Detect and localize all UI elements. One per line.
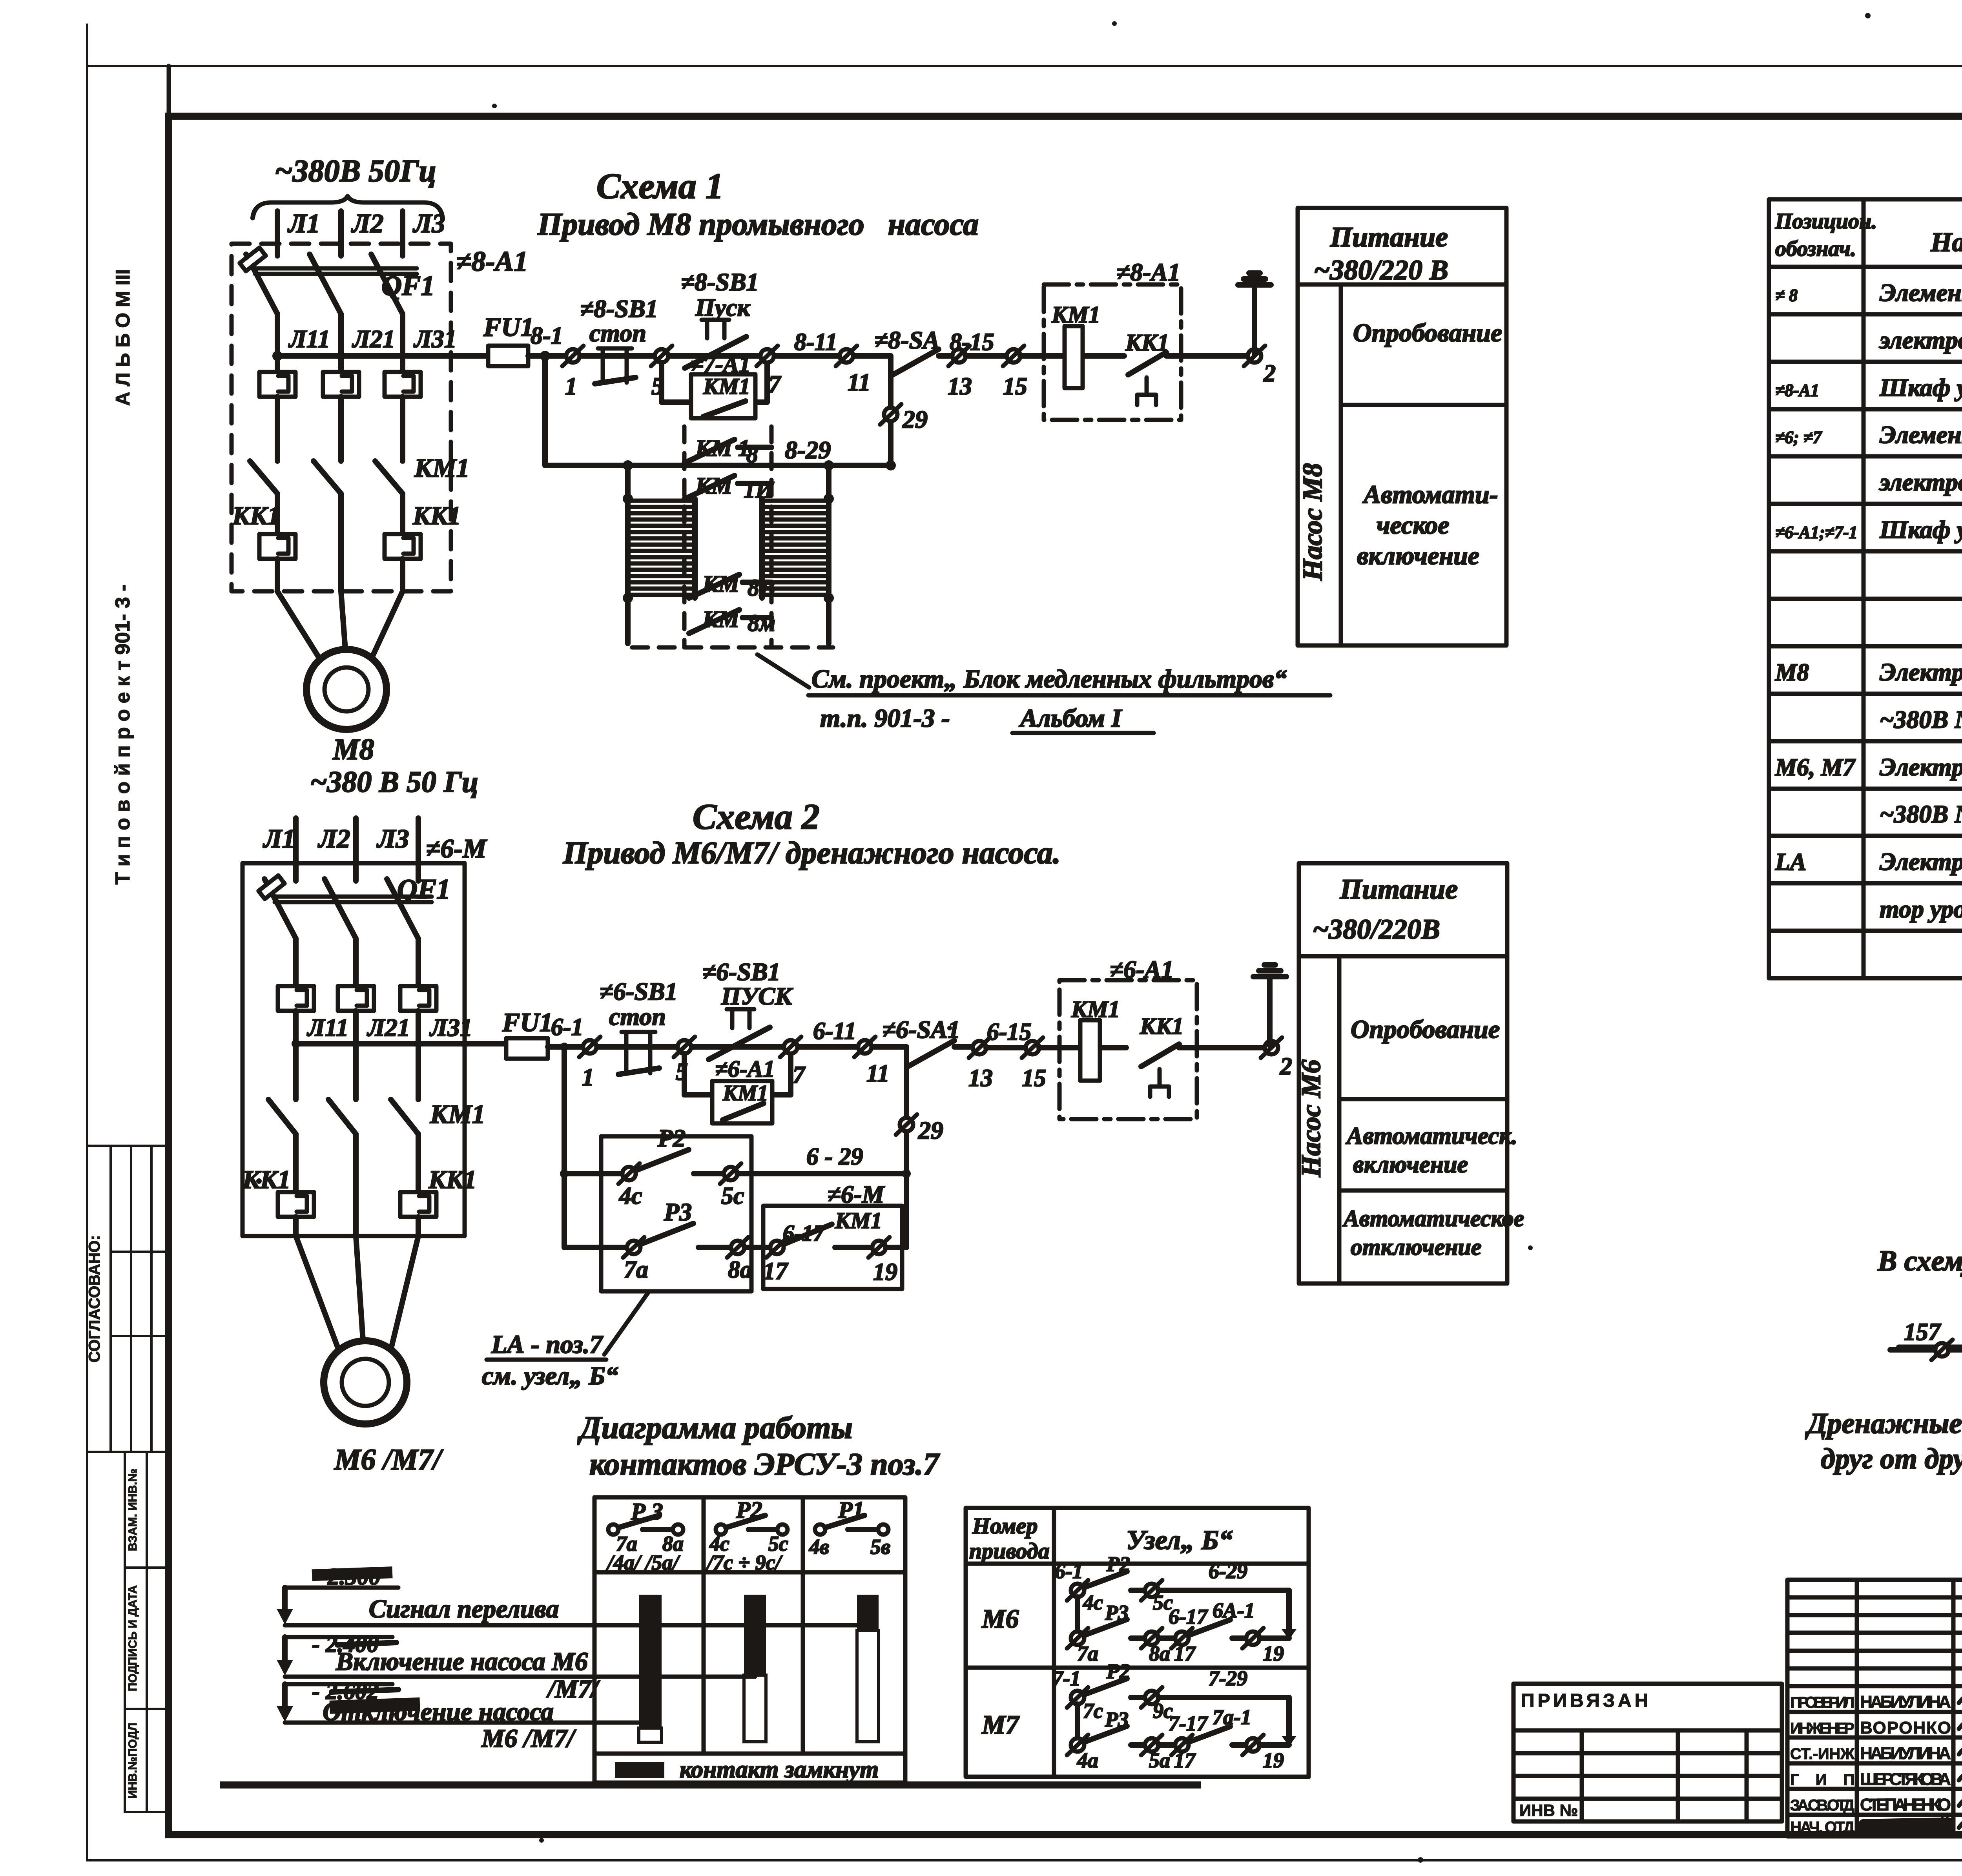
svg-text:Пуск: Пуск	[695, 294, 751, 321]
svg-text:ЗА.СВ.ОТД: ЗА.СВ.ОТД	[1790, 1797, 1854, 1814]
svg-text:≠6; ≠7: ≠6; ≠7	[1775, 428, 1822, 447]
svg-text:Альбом I: Альбом I	[1019, 704, 1122, 733]
svg-text:~380В N=30кВт n=1450 об/мин: ~380В N=30кВт n=1450 об/мин.	[1880, 706, 1962, 733]
svg-text:Автомати-: Автомати-	[1362, 480, 1498, 509]
svg-text:~380В 50Гц: ~380В 50Гц	[275, 154, 436, 188]
heater element phase 2	[323, 372, 359, 397]
svg-text:Включение насоса М6: Включение насоса М6	[336, 1647, 588, 1676]
ground symbol schema 1	[1238, 273, 1271, 354]
svg-text:5в: 5в	[870, 1535, 890, 1559]
header contact P3	[606, 1499, 684, 1574]
svg-text:ПРОВЕРИЛ: ПРОВЕРИЛ	[1790, 1694, 1854, 1711]
wires to box bottom	[293, 1217, 299, 1236]
svg-text:М6: М6	[981, 1604, 1019, 1634]
svg-text:15: 15	[1003, 373, 1027, 400]
wire: phase drops to bus	[275, 314, 280, 372]
svg-text:17: 17	[1174, 1748, 1196, 1772]
svg-text:Л2: Л2	[351, 208, 384, 238]
svg-text:4с: 4с	[619, 1183, 642, 1209]
svg-text:Опробование: Опробование	[1351, 1015, 1500, 1044]
svg-text:LА: LА	[1775, 849, 1806, 875]
svg-text:Элементы управления: Элементы управления	[1880, 279, 1962, 306]
svg-text:29: 29	[902, 405, 928, 433]
svg-text:контактов ЭРСУ-3 поз.7: контактов ЭРСУ-3 поз.7	[589, 1447, 940, 1482]
contact circle 2	[1244, 346, 1265, 366]
level mark -2.400	[277, 1631, 396, 1675]
svg-text:2: 2	[1263, 360, 1276, 387]
separator line under diagram area	[220, 1781, 1201, 1788]
contact circle 11 schema 2	[854, 1037, 875, 1057]
svg-text:6-17: 6-17	[1169, 1605, 1208, 1628]
svg-text:СТ.-ИНЖ: СТ.-ИНЖ	[1790, 1745, 1855, 1763]
svg-text:5а: 5а	[1149, 1748, 1170, 1772]
svg-text:≠6-М: ≠6-М	[426, 833, 487, 863]
svg-text:НАБИУЛИНА: НАБИУЛИНА	[1860, 1692, 1951, 1712]
svg-text:7а: 7а	[1077, 1642, 1098, 1665]
wire to contact P2	[564, 1171, 623, 1176]
svg-text:ИНВ.№ПОДЛ: ИНВ.№ПОДЛ	[126, 1723, 139, 1799]
svg-text:обознач.: обознач.	[1775, 237, 1856, 261]
svg-text:1: 1	[582, 1064, 594, 1091]
wires converging to motor M8	[277, 591, 321, 661]
wire: KK1 to box bottom	[275, 559, 280, 591]
svg-text:Л21: Л21	[367, 1014, 410, 1041]
svg-text:17: 17	[763, 1258, 789, 1285]
svg-text:т.п. 901-3 -: т.п. 901-3 -	[820, 704, 950, 733]
contact P1 to signalling	[1890, 1316, 1962, 1370]
svg-text:Питание: Питание	[1330, 221, 1448, 253]
wire	[986, 1045, 1032, 1050]
svg-text:друг от друга.: друг от друга.	[1821, 1443, 1962, 1475]
svg-text:Привод М8 промывного насоса: Привод М8 промывного насоса	[537, 207, 979, 242]
blot over last name	[1858, 1818, 1955, 1835]
svg-text:ПОДПИСЬ И ДАТА: ПОДПИСЬ И ДАТА	[126, 1585, 139, 1691]
motor M6/M7	[324, 1341, 407, 1424]
contact circle 7 schema 2	[780, 1037, 801, 1057]
svg-text:7с: 7с	[1083, 1699, 1103, 1723]
parts list table	[1769, 199, 1962, 978]
auxiliary contact KM1 box #7-A1	[691, 351, 755, 418]
svg-text:Л11: Л11	[306, 1014, 348, 1041]
motor M8	[306, 649, 387, 729]
svg-text:М7: М7	[981, 1710, 1020, 1739]
svg-text:/4а/ /5а/: /4а/ /5а/	[606, 1551, 681, 1574]
svg-text:Электронный регулятор-сигнали: Электронный регулятор-сигнализа-	[1880, 848, 1962, 875]
svg-text:ИНЖЕНЕР: ИНЖЕНЕР	[1790, 1720, 1854, 1737]
level mark -2.602	[277, 1678, 398, 1722]
svg-text:М8: М8	[1775, 659, 1809, 686]
svg-text:Р2: Р2	[657, 1124, 686, 1152]
node L11 schema 2	[292, 1039, 300, 1048]
svg-text:Сигнал перелива: Сигнал перелива	[369, 1595, 559, 1623]
svg-text:FU1: FU1	[483, 312, 534, 342]
svg-text:6-11: 6-11	[813, 1018, 856, 1045]
interlock box #6-M	[763, 1180, 902, 1289]
wires QF1 to heaters	[293, 939, 299, 986]
svg-text:привода: привода	[969, 1538, 1050, 1564]
svg-text:/7с ÷ 9с/: /7с ÷ 9с/	[706, 1551, 783, 1574]
svg-text:2: 2	[1280, 1053, 1292, 1080]
svg-text:≠8-А1: ≠8-А1	[1116, 258, 1180, 286]
contact circle 7	[757, 346, 778, 366]
wire to terminal 2 schema 2	[1179, 1045, 1265, 1050]
wire: node 8-1 drop to lower bus	[542, 356, 548, 465]
auxiliary contact KM1 box #6-A1	[712, 1056, 775, 1123]
feed table box schema 1	[1298, 208, 1506, 645]
svg-text:6-29: 6-29	[1209, 1559, 1247, 1583]
heater element phase 3	[385, 372, 421, 397]
svg-text:29: 29	[918, 1116, 943, 1144]
phase line L3 schema 2	[416, 818, 421, 881]
svg-text:4в: 4в	[809, 1535, 829, 1559]
svg-text:ПУСК: ПУСК	[721, 982, 793, 1010]
svg-text:Т и п о в о й п р о е к т: Т и п о в о й п р о е к т 901- 3 -	[111, 585, 134, 885]
svg-text:стоп: стоп	[589, 319, 646, 347]
wire to terminal 2	[1166, 353, 1248, 359]
cabinet #6-M enclosure	[243, 863, 465, 1236]
wire: KM1 contacts to KK1 heaters	[275, 494, 280, 534]
svg-text:Наименование: Наименование	[1930, 227, 1962, 257]
svg-text:Узел„ Б“: Узел„ Б“	[1126, 1525, 1233, 1555]
wire: bus down to P3 row	[904, 1174, 909, 1247]
svg-text:8а: 8а	[1149, 1642, 1170, 1665]
LA contacts box	[601, 1136, 751, 1291]
dashed bottom of winding block	[632, 645, 833, 650]
diagram frame	[594, 1497, 905, 1783]
contact circle 15	[1003, 346, 1024, 366]
header contact P1	[809, 1497, 890, 1559]
svg-text:М6 /М7/: М6 /М7/	[481, 1724, 576, 1753]
svg-text:≠6-SB1: ≠6-SB1	[600, 977, 678, 1005]
left margin stamp strip (inv/podpis/vzam)	[125, 1452, 169, 1812]
svg-text:НАБИУЛИНА: НАБИУЛИНА	[1860, 1744, 1951, 1763]
phase line L1 schema 2	[293, 818, 299, 881]
svg-text:8а: 8а	[728, 1256, 752, 1283]
svg-text:Шкаф управления ШУ5104-03В2Е: Шкаф управления ШУ5104-03В2Е	[1879, 516, 1962, 543]
svg-text:15: 15	[1022, 1065, 1046, 1092]
svg-text:КМ1: КМ1	[1051, 302, 1100, 328]
svg-text:Автоматическое: Автоматическое	[1342, 1205, 1524, 1231]
svg-text:включение: включение	[1357, 541, 1479, 570]
svg-text:1: 1	[565, 373, 577, 400]
contactor KM1 main contacts	[250, 453, 470, 494]
svg-text:11: 11	[848, 369, 871, 396]
cabinet #8-A1 dash-dot enclosure	[1044, 284, 1181, 420]
switch contact #8-SA1	[874, 326, 952, 376]
svg-text:Питание: Питание	[1340, 873, 1458, 905]
switch contact #6-SA1	[882, 1015, 973, 1067]
circuit breaker QF1	[240, 248, 435, 314]
svg-text:7а: 7а	[624, 1256, 648, 1283]
contact circle 29 schema 2	[896, 1114, 917, 1135]
start button SB1 schema 1	[681, 268, 759, 368]
level line pump on	[285, 1675, 755, 1679]
wire	[528, 353, 891, 359]
wire: heater to KM1 contacts	[275, 397, 280, 461]
svg-text:6А-1: 6А-1	[1213, 1599, 1255, 1622]
svg-text:19: 19	[1263, 1748, 1284, 1772]
note LA pos 7	[482, 1293, 648, 1390]
svg-text:6 - 29: 6 - 29	[806, 1143, 863, 1170]
svg-text:≠8-А1: ≠8-А1	[1775, 381, 1819, 400]
svg-text:Л1: Л1	[263, 824, 295, 853]
thermal contact KK1 schema 1	[1125, 330, 1169, 405]
svg-text:см. узел„ Б“: см. узел„ Б“	[482, 1362, 618, 1390]
svg-text:≠6-А1: ≠6-А1	[715, 1056, 775, 1082]
svg-text:Л2: Л2	[317, 824, 350, 853]
svg-text:≠6-SB1: ≠6-SB1	[702, 958, 780, 986]
contact circle 13	[948, 346, 970, 366]
wire 19 up to bus	[886, 1245, 906, 1250]
contact circle 13 schema 2	[969, 1037, 990, 1058]
contactor KM1 main contacts schema 2	[268, 1099, 485, 1134]
svg-text:LА - поз.7: LА - поз.7	[491, 1330, 604, 1359]
wire into cabinet	[1039, 1045, 1126, 1050]
svg-text:Электродвигатель насоса АОП2-2: Электродвигатель насоса АОП2-22-4	[1880, 753, 1962, 781]
contact circle 1 schema 2	[579, 1037, 600, 1057]
svg-text:4с: 4с	[1083, 1591, 1103, 1614]
svg-text:≠6-А1: ≠6-А1	[1110, 955, 1174, 983]
svg-text:7-29: 7-29	[1209, 1666, 1247, 1690]
svg-text:~380/220В: ~380/220В	[1313, 913, 1440, 945]
wire: node 6-1 drop	[562, 1047, 567, 1247]
svg-text:19: 19	[1263, 1642, 1284, 1665]
svg-text:11: 11	[866, 1060, 890, 1087]
node 29 drop schema 2	[904, 1067, 909, 1174]
svg-text:См. проект„ Блок медленных фи: См. проект„ Блок медленных фильтров“	[811, 665, 1287, 693]
coil corner dots	[623, 494, 633, 504]
wire: control bus schema 1	[277, 353, 488, 359]
svg-text:8В: 8В	[748, 575, 775, 601]
thermal contact KK1 schema 2	[1140, 1013, 1183, 1097]
level line signal overflow	[285, 1623, 868, 1628]
wire: control bus schema 2	[296, 1041, 506, 1046]
svg-text:Л3: Л3	[412, 208, 445, 238]
contact circle 29	[880, 404, 901, 425]
svg-text:тор уровня ЭРСУ-3: тор уровня ЭРСУ-3	[1880, 895, 1962, 923]
svg-text:В схему сигнализации лист АП-4: В схему сигнализации лист АП-4	[1877, 1245, 1962, 1277]
node 29 vertical	[888, 376, 893, 465]
svg-text:контакт замкнут: контакт замкнут	[680, 1756, 879, 1783]
svg-text:ВЗАМ. ИНВ.№: ВЗАМ. ИНВ.№	[126, 1469, 139, 1551]
header contact P2	[706, 1497, 788, 1574]
contact circle 2 schema 2	[1261, 1037, 1282, 1058]
contact circle 5	[651, 346, 672, 366]
uzel B table frame	[966, 1508, 1309, 1777]
legend closed contact	[615, 1762, 664, 1778]
stray scan marks	[1112, 21, 1117, 26]
level mark -2.300 (struck)	[277, 1564, 398, 1624]
heater element phase 1	[259, 372, 295, 397]
svg-text:~380В N=1,5кВт n=1450об/мин: ~380В N=1,5кВт n=1450об/мин	[1880, 800, 1962, 828]
svg-text:отключение: отключение	[1351, 1234, 1482, 1260]
svg-text:КМ1: КМ1	[835, 1208, 882, 1233]
svg-text:НАЧ. ОТД: НАЧ. ОТД	[1790, 1819, 1854, 1836]
svg-text:≠8-SB1: ≠8-SB1	[681, 268, 759, 296]
winding (heater coil) right	[762, 501, 829, 595]
title block: attached-project table	[1513, 1684, 1782, 1821]
svg-text:Элементы управления: Элементы управления	[1880, 421, 1962, 448]
svg-text:КМ1: КМ1	[430, 1099, 485, 1129]
title block main frame	[1787, 1580, 1962, 1836]
svg-text:КК1: КК1	[1140, 1013, 1183, 1039]
svg-text:Схема 2: Схема 2	[693, 797, 820, 837]
junction dots on lower bus	[623, 460, 633, 470]
ground symbol schema 2	[1253, 965, 1286, 1046]
svg-text:≠8-SА: ≠8-SА	[874, 326, 940, 354]
phase line L3	[400, 211, 405, 256]
node L11 junction	[272, 351, 283, 361]
svg-text:1И: 1И	[744, 477, 775, 503]
wire	[966, 353, 1014, 359]
wire: lower bus schema 1	[545, 463, 891, 468]
wire P3 to KM1 interlock	[744, 1245, 770, 1250]
svg-text:М8: М8	[332, 733, 374, 766]
bar P2	[744, 1595, 766, 1675]
svg-text:6-1: 6-1	[1055, 1559, 1083, 1583]
drop wire	[1075, 1597, 1080, 1632]
contact circle 15 schema 2	[1022, 1037, 1043, 1058]
svg-text:СТЕПАНЕНКО: СТЕПАНЕНКО	[1860, 1795, 1951, 1814]
svg-text:~380 В 50 Гц: ~380 В 50 Гц	[310, 766, 478, 799]
cabinet #8-A1 dashed enclosure	[232, 244, 451, 591]
contact circle 1	[562, 346, 583, 366]
left margin stamp box (soglasovano)	[87, 1146, 169, 1452]
wire into cabinet	[1020, 353, 1124, 359]
feed table box schema 2	[1299, 863, 1507, 1283]
svg-text:КК1: КК1	[412, 501, 461, 530]
svg-text:7-17: 7-17	[1169, 1712, 1208, 1735]
svg-text:8-1: 8-1	[531, 323, 563, 349]
phase line L2 schema 2	[353, 818, 359, 881]
contact circle 5 schema 2	[674, 1037, 695, 1057]
svg-text:Номер: Номер	[972, 1513, 1038, 1539]
node 6-1	[560, 1043, 569, 1051]
svg-text:Насос М8: Насос М8	[1298, 463, 1328, 581]
svg-text:Опробование: Опробование	[1353, 319, 1502, 347]
svg-text:Автоматическ.: Автоматическ.	[1345, 1123, 1517, 1149]
winding (heater coil) left	[628, 501, 695, 595]
svg-text:включение: включение	[1353, 1151, 1468, 1178]
wire: seal-in loop KM1	[662, 363, 767, 402]
cabinet #6-A1 dash-dot enclosure	[1059, 980, 1197, 1119]
phase line L2	[338, 211, 344, 256]
svg-text:Электродвигатель- насоса А2-72: Электродвигатель- насоса А2-72-4	[1880, 658, 1962, 686]
svg-text:Р3: Р3	[664, 1198, 692, 1226]
page edge overshoot top left	[86, 24, 88, 66]
svg-text:М6, М7: М6, М7	[1775, 754, 1856, 781]
relay contact P2	[618, 1124, 744, 1209]
wire 6-29	[737, 1171, 906, 1176]
svg-text:Л11: Л11	[288, 325, 330, 353]
node 8-1	[540, 351, 550, 361]
wires to bus	[293, 1011, 299, 1099]
svg-text:Л1: Л1	[287, 208, 320, 238]
bar P1	[857, 1595, 879, 1630]
svg-text:стоп: стоп	[609, 1003, 666, 1030]
svg-text:ПРИВЯЗАН: ПРИВЯЗАН	[1521, 1690, 1651, 1711]
level line pump off	[285, 1721, 650, 1725]
svg-text:КМ1: КМ1	[414, 453, 470, 483]
wire to contact P3	[564, 1245, 628, 1250]
stop button SB1 schema 1	[580, 295, 658, 384]
svg-text:7-1: 7-1	[1052, 1666, 1081, 1690]
svg-text:7: 7	[768, 371, 782, 398]
svg-text:8-11: 8-11	[794, 329, 837, 356]
svg-text:Насос М6: Насос М6	[1296, 1059, 1326, 1178]
circuit breaker QF1 schema 2	[259, 873, 450, 939]
relay contact P3	[623, 1198, 752, 1283]
svg-text:А Л Ь Б О М III: А Л Ь Б О М III	[112, 269, 134, 406]
wires KM1 to KK1	[293, 1134, 299, 1192]
svg-text:Л21: Л21	[352, 325, 395, 353]
frame left extension to page top	[167, 66, 171, 118]
svg-text:≠ 8: ≠ 8	[1775, 286, 1798, 305]
svg-text:Привод М6/М7/ дренажного насо: Привод М6/М7/ дренажного насоса.	[563, 836, 1061, 870]
svg-text:КК1: КК1	[232, 501, 281, 530]
phase line L1	[275, 211, 280, 256]
svg-text:6-1: 6-1	[551, 1014, 583, 1041]
svg-text:13: 13	[948, 373, 972, 400]
wire: seal-in loop KM1 schema 2	[684, 1054, 791, 1095]
svg-text:4а: 4а	[1077, 1748, 1098, 1772]
svg-text:Л31: Л31	[429, 1014, 472, 1041]
svg-text:Л31: Л31	[413, 325, 457, 353]
svg-text:/М7/: /М7/	[546, 1675, 600, 1703]
svg-text:6-15: 6-15	[987, 1019, 1032, 1045]
svg-text:8-29: 8-29	[785, 436, 831, 464]
svg-text:157: 157	[1904, 1319, 1942, 1345]
bar P3	[639, 1595, 662, 1728]
svg-text:Позицион.: Позицион.	[1775, 209, 1877, 233]
svg-text:ческое: ческое	[1377, 511, 1450, 540]
svg-text:ИНВ №: ИНВ №	[1519, 1801, 1578, 1819]
svg-text:КК1: КК1	[242, 1165, 291, 1194]
svg-text:5с: 5с	[721, 1183, 744, 1209]
contact circle 11	[836, 346, 857, 366]
svg-text:8м: 8м	[748, 610, 775, 636]
svg-text:ШЕРСТЯКОВА: ШЕРСТЯКОВА	[1860, 1770, 1951, 1789]
svg-text:КМ1: КМ1	[703, 374, 750, 399]
wires converging to motor M6/M7	[296, 1236, 340, 1353]
svg-text:FU1: FU1	[502, 1007, 552, 1037]
svg-text:Шкаф управления ШУ5102-23В2Б: Шкаф управления ШУ5102-23В2Б	[1879, 374, 1962, 401]
svg-text:ВОРОНКО: ВОРОНКО	[1860, 1718, 1951, 1737]
svg-text:СОГЛАСОВАНО:: СОГЛАСОВАНО:	[86, 1235, 103, 1363]
svg-text:≠6-А1;≠7-1: ≠6-А1;≠7-1	[1775, 523, 1858, 542]
svg-text:7: 7	[793, 1062, 806, 1088]
start button SB1 schema 2	[702, 958, 793, 1059]
svg-text:17: 17	[1174, 1642, 1196, 1665]
contact P3 row M6	[1067, 1628, 1088, 1648]
svg-text:≠8-А1: ≠8-А1	[456, 246, 528, 277]
svg-text:М6 /М7/: М6 /М7/	[334, 1443, 443, 1476]
svg-text:Л3: Л3	[376, 824, 409, 853]
svg-text:КК1: КК1	[428, 1165, 477, 1194]
stop button SB1 schema 2	[600, 977, 678, 1074]
svg-text:электродвигателем М8: электродвигателем М8	[1879, 326, 1962, 354]
svg-text:электродвигателем М6; М7: электродвигателем М6; М7	[1879, 468, 1962, 496]
leader to project note	[757, 655, 809, 687]
svg-text:~380/220 В: ~380/220 В	[1314, 254, 1448, 286]
svg-text:≠8-SB1: ≠8-SB1	[580, 295, 658, 323]
svg-text:Диаграмма работы: Диаграмма работы	[577, 1411, 853, 1445]
svg-text:Схема 1: Схема 1	[596, 166, 724, 206]
wire	[548, 1044, 906, 1050]
heater elements schema 2	[278, 986, 314, 1011]
svg-text:Дренажные насосы работают н: Дренажные насосы работают независимо	[1805, 1407, 1962, 1440]
svg-text:13: 13	[968, 1065, 993, 1092]
